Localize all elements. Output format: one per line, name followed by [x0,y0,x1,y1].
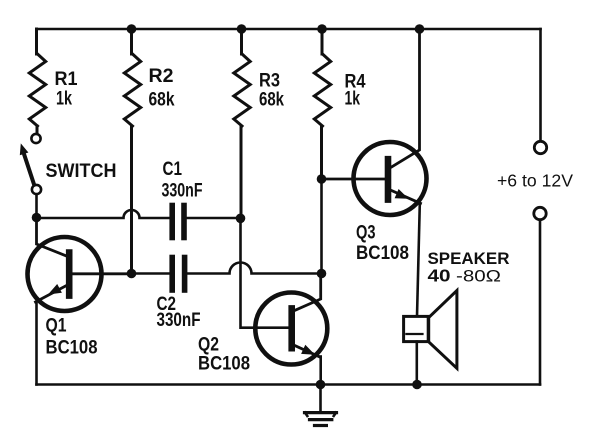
speaker LS1 [404,291,457,369]
wire switch to node A [35,195,38,218]
resistor R4 [314,29,330,179]
transistor Q3 base bar [385,159,392,199]
transistor Q2 base bar [288,308,295,348]
node B junction (C1 / R3 / Q2 base) [236,214,246,224]
wire R4 column node C to node D [320,179,323,274]
svg-text:R2: R2 [149,65,174,87]
node top rail / R3 junction [237,24,247,34]
ground [305,385,337,426]
wire C2 left lead [132,272,170,275]
svg-text:68k: 68k [149,89,175,111]
wire top supply rail [37,28,541,31]
wire speaker to bottom rail [415,342,418,385]
terminal + supply (open circle) [534,141,546,153]
wire C1 left lead with hop over R2 column [37,210,170,218]
svg-text:1k: 1k [345,88,361,110]
wire Q2 collector from node D [294,274,321,311]
wire bottom ground rail [37,383,541,386]
wire Q3 collector to top rail [392,29,420,167]
switch S1 upper contact [31,134,40,143]
node bottom rail / speaker junction [412,380,422,390]
node C junction (R4 / Q3 base / Q2 collector column) [317,174,327,184]
wire node B down to Q2 base [241,218,288,328]
svg-text:40: 40 [428,266,451,286]
transistor Q1 emitter with arrow [36,284,67,302]
resistor R2 [124,29,140,274]
node D junction (C2 / R4 / Q2 collector) [317,269,327,279]
svg-text:330nF: 330nF [162,180,203,202]
wire right supply drop to + terminal [539,29,542,141]
transistor Q2 circle [255,293,327,365]
transistor Q2 emitter with arrow [294,345,320,357]
terminal - supply (open circle) [534,207,546,219]
svg-text:SWITCH: SWITCH [46,161,117,182]
node top rail / R2 junction [127,24,137,34]
node top rail / R4 junction [317,24,327,34]
resistor R1 [29,29,45,134]
resistor R3 [234,29,250,218]
capacitor C1 [172,206,184,238]
svg-text:BC108: BC108 [198,353,250,375]
wire Q3 emitter down to speaker [417,203,420,316]
transistor Q1 circle [28,237,102,311]
svg-text:C1: C1 [163,158,183,180]
wire C1 right lead to node B [187,217,241,220]
svg-text:-80Ω: -80Ω [456,267,501,286]
wire right supply drop to bottom rail [539,220,542,385]
wire C2 right lead with hop over R3 column to node D [188,263,322,274]
wire Q2 emitter to bottom rail [319,357,322,385]
svg-text:BC108: BC108 [356,242,409,264]
wire Q1 emitter to bottom rail [35,302,38,385]
svg-text:Q3: Q3 [356,222,376,244]
node top rail / Q3 collector junction [415,24,425,34]
wire Q1 base lead to node E [73,272,132,275]
node E junction (R2 / C2 / Q1 base) [127,269,137,279]
capacitor C2 [172,258,184,291]
svg-text:68k: 68k [259,89,284,111]
node A junction (switch / C1 / Q1 collector) [32,213,42,223]
switch S1 lower contact [32,185,41,194]
node bottom rail / Q2 emitter / ground junction [316,380,326,390]
transistor Q3 circle [354,142,427,215]
switch S1 arm with arrow [20,143,35,185]
transistor Q1 base bar [66,253,73,296]
wire Q3 base lead from node C [322,178,385,181]
svg-text:330nF: 330nF [157,309,201,331]
svg-text:+6 to 12V: +6 to 12V [497,171,573,191]
svg-text:BC108: BC108 [46,337,98,359]
wire Q1 collector from node A [37,218,67,257]
svg-text:1k: 1k [56,88,72,110]
transistor Q3 emitter with arrow [392,189,421,203]
svg-text:Q1: Q1 [46,315,67,337]
